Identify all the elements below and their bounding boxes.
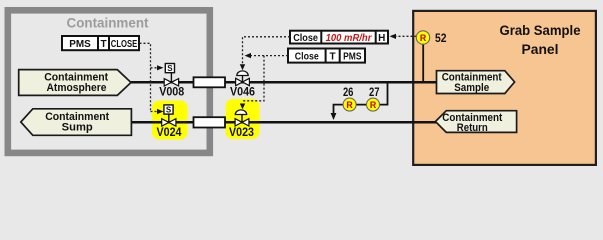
svg-text:26: 26	[343, 85, 354, 99]
tag: Containment Return	[435, 111, 516, 134]
tag: Containment Sump	[21, 109, 132, 136]
containment penetration (atmosphere line)	[194, 77, 226, 87]
valve V024	[162, 105, 176, 126]
control line: Close 100mR/hr H box to V046 actuator	[243, 37, 291, 64]
svg-text:R: R	[346, 100, 353, 110]
svg-text:V023: V023	[229, 127, 254, 139]
svg-text:R: R	[370, 100, 377, 110]
valve V008	[164, 64, 178, 87]
interlock box Close 100 mR/hr H	[290, 31, 388, 44]
svg-text:Sample: Sample	[454, 82, 489, 94]
svg-text:27: 27	[369, 85, 380, 99]
svg-text:Atmosphere: Atmosphere	[47, 82, 107, 94]
valve V023 highlight	[226, 99, 260, 139]
containment penetration (sump line)	[194, 117, 226, 127]
svg-text:PMS: PMS	[69, 39, 91, 50]
control line: Close T PMS box to V046 stem	[251, 55, 288, 57]
svg-text:100 mR/hr: 100 mR/hr	[326, 33, 373, 44]
svg-text:Panel: Panel	[522, 42, 559, 57]
wire branch to V008 solenoid	[151, 67, 158, 69]
pipe: containment sump / return line	[130, 121, 436, 124]
tag: Containment Atmosphere	[19, 70, 131, 96]
svg-text:T: T	[100, 39, 106, 50]
svg-text:Close: Close	[293, 33, 318, 44]
grab sample panel	[413, 11, 596, 165]
svg-text:Close: Close	[295, 51, 319, 62]
arrow into V008 solenoid	[157, 65, 164, 70]
svg-text:PMS: PMS	[343, 51, 362, 62]
svg-text:Containment: Containment	[67, 15, 149, 31]
wire branch to V024 solenoid	[151, 111, 158, 113]
radiation monitor R26	[343, 98, 356, 111]
control line: R52 to Close 100mR/hr H box	[396, 35, 417, 37]
svg-text:CLOSE: CLOSE	[111, 39, 138, 50]
wire: sample line branch through R27/R26 to return line	[334, 82, 388, 113]
svg-text:V008: V008	[159, 86, 185, 98]
svg-text:Sump: Sump	[62, 121, 93, 133]
svg-text:V024: V024	[157, 127, 183, 139]
pipe: containment atmosphere / sample line	[128, 81, 437, 84]
arrow into V023 actuator	[240, 104, 245, 110]
wire: R52 to sample line	[422, 44, 424, 82]
arrow into V024 solenoid	[157, 109, 164, 114]
svg-text:Return: Return	[457, 122, 488, 134]
arrow onto return line	[331, 113, 337, 120]
containment boundary wall	[8, 10, 210, 153]
svg-text:V046: V046	[230, 86, 255, 98]
svg-text:H: H	[378, 33, 385, 44]
valve V024 highlight	[152, 101, 188, 140]
control line: Close T PMS box to V023 actuator	[243, 56, 264, 101]
valve V046	[236, 71, 250, 86]
svg-text:52: 52	[435, 31, 447, 45]
radiation monitor R52	[416, 31, 429, 44]
arrow into V046 actuator	[240, 64, 245, 70]
svg-text:S: S	[167, 64, 173, 73]
svg-text:Grab Sample: Grab Sample	[500, 23, 581, 38]
interlock box PMS T CLOSE	[62, 36, 139, 50]
control line: PMS T CLOSE box to V008 and V024 solenoids	[140, 43, 151, 111]
radiation monitor R27	[367, 98, 380, 111]
valve V023	[235, 110, 249, 126]
tag: Containment Sample	[437, 71, 515, 94]
arrow into H box	[390, 34, 397, 39]
arrow toward V046 stem	[245, 53, 251, 58]
svg-text:T: T	[330, 51, 336, 62]
svg-text:R: R	[420, 33, 427, 43]
svg-text:S: S	[166, 105, 172, 114]
interlock box Close T PMS	[288, 49, 365, 63]
